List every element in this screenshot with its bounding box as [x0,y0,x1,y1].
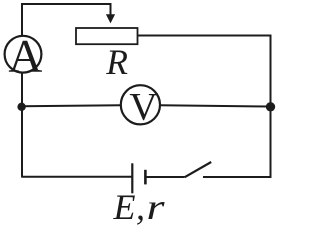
svg-text:R: R [105,42,128,82]
wire: bottom rail to battery [21,176,131,178]
wire: middle horizontal left of voltmeter [22,104,121,107]
voltmeter V1 [121,85,160,128]
svg-text:,: , [136,187,145,225]
resistor R (rheostat box) [76,28,138,44]
node left junction [17,103,25,111]
wire: battery to switch pivot [146,176,184,178]
svg-text:A: A [8,31,42,83]
wire: right rail [270,35,272,178]
battery E,r short plate [144,170,147,185]
wire: rheostat output to top-right corner [138,35,272,37]
wire: middle horizontal right of voltmeter [160,105,271,106]
svg-text:E: E [113,187,136,225]
svg-text:r: r [147,187,166,225]
wire: left rail ammeter bottom to bottom-left corner [21,73,23,177]
ammeter A1 [5,31,43,83]
wire: switch right contact to bottom-right corner [203,176,271,178]
battery E,r long plate [131,163,133,193]
wiper arrowhead onto rheostat [106,14,115,23]
wire: top-left from ammeter up and right to arrow corner [22,4,111,36]
svg-text:V: V [129,86,157,129]
node right junction [266,102,275,111]
switch S blade [185,162,212,177]
